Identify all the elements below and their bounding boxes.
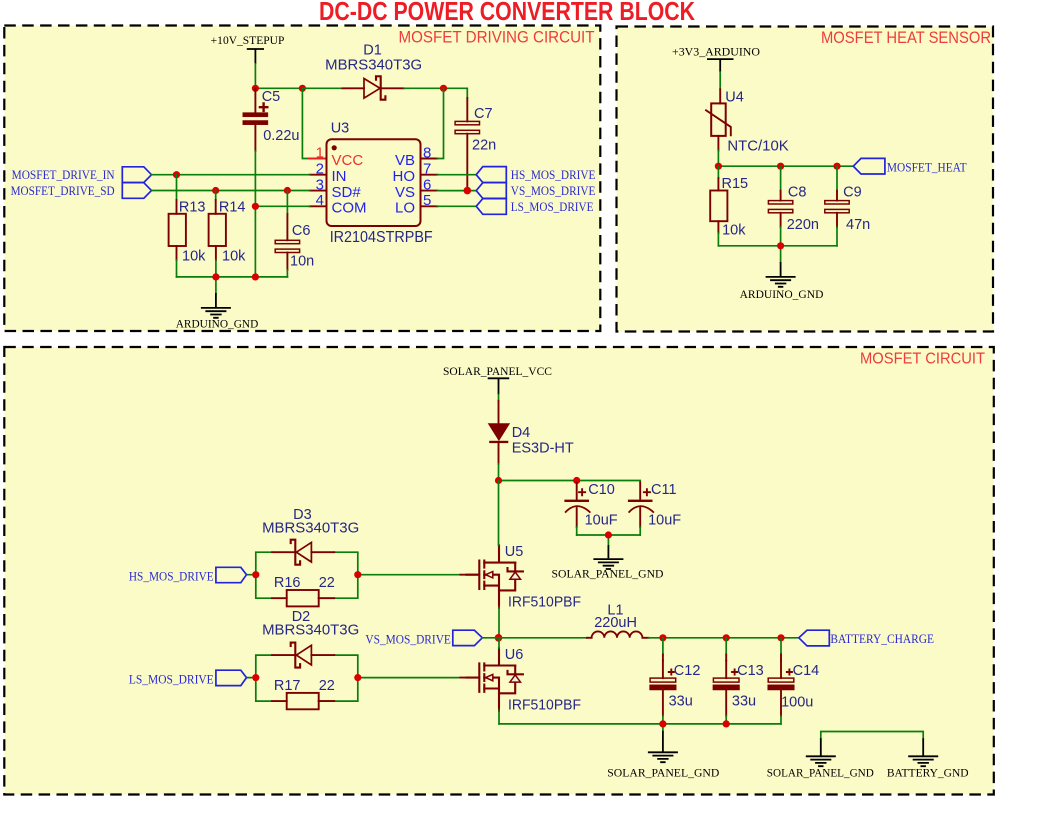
svg-text:R15: R15 [722, 176, 749, 192]
svg-text:MOSFET HEAT SENSOR: MOSFET HEAT SENSOR [821, 28, 991, 47]
svg-text:U4: U4 [725, 89, 744, 105]
svg-text:MOSFET_DRIVE_SD: MOSFET_DRIVE_SD [11, 184, 115, 198]
svg-text:10uF: 10uF [585, 513, 618, 529]
svg-text:BATTERY_CHARGE: BATTERY_CHARGE [830, 632, 934, 646]
svg-text:C12: C12 [674, 663, 701, 679]
svg-text:2: 2 [316, 161, 324, 178]
svg-text:COM: COM [332, 200, 367, 217]
svg-text:33u: 33u [669, 693, 693, 709]
svg-text:NTC/10K: NTC/10K [727, 138, 789, 154]
svg-text:+3V3_ARDUINO: +3V3_ARDUINO [672, 46, 760, 58]
svg-text:10n: 10n [290, 254, 314, 270]
svg-text:LS_MOS_DRIVE: LS_MOS_DRIVE [129, 673, 214, 687]
svg-text:VS_MOS_DRIVE: VS_MOS_DRIVE [365, 632, 451, 646]
svg-text:MOSFET_DRIVE_IN: MOSFET_DRIVE_IN [12, 168, 115, 182]
svg-text:7: 7 [423, 161, 431, 178]
svg-text:R16: R16 [274, 575, 301, 591]
svg-text:5: 5 [423, 192, 431, 209]
svg-text:D1: D1 [363, 43, 382, 59]
svg-text:MBRS340T3G: MBRS340T3G [262, 623, 359, 639]
svg-text:R17: R17 [274, 678, 301, 694]
svg-text:C14: C14 [793, 663, 820, 679]
svg-text:C6: C6 [292, 223, 311, 239]
svg-text:10k: 10k [222, 249, 246, 265]
svg-text:BATTERY_GND: BATTERY_GND [887, 767, 969, 779]
svg-text:3: 3 [316, 176, 324, 193]
svg-text:MOSFET DRIVING CIRCUIT: MOSFET DRIVING CIRCUIT [399, 27, 595, 46]
svg-text:MBRS340T3G: MBRS340T3G [262, 520, 359, 536]
svg-text:HO: HO [393, 168, 416, 185]
svg-text:DC-DC POWER CONVERTER BLOCK: DC-DC POWER CONVERTER BLOCK [319, 0, 695, 26]
svg-text:VCC: VCC [332, 152, 364, 169]
svg-text:SOLAR_PANEL_GND: SOLAR_PANEL_GND [607, 767, 719, 779]
svg-text:LO: LO [395, 200, 415, 217]
svg-text:C13: C13 [737, 663, 764, 679]
svg-text:VS: VS [395, 184, 415, 201]
svg-text:C10: C10 [588, 482, 615, 498]
svg-text:SOLAR_PANEL_VCC: SOLAR_PANEL_VCC [443, 366, 552, 378]
svg-text:8: 8 [423, 144, 431, 161]
svg-text:6: 6 [423, 176, 431, 193]
svg-text:VB: VB [395, 152, 415, 169]
svg-text:22: 22 [319, 575, 335, 591]
svg-text:10k: 10k [182, 249, 206, 265]
svg-text:10k: 10k [722, 223, 746, 239]
svg-text:U3: U3 [331, 121, 350, 137]
svg-text:IR2104STRPBF: IR2104STRPBF [330, 229, 433, 246]
svg-text:C7: C7 [474, 106, 493, 122]
svg-text:C5: C5 [262, 89, 281, 105]
svg-text:VS_MOS_DRIVE: VS_MOS_DRIVE [511, 184, 596, 198]
svg-text:MBRS340T3G: MBRS340T3G [325, 57, 422, 73]
svg-text:LS_MOS_DRIVE: LS_MOS_DRIVE [511, 200, 594, 214]
svg-text:R13: R13 [179, 200, 206, 216]
svg-text:C9: C9 [843, 184, 862, 200]
svg-text:1: 1 [316, 144, 324, 161]
svg-text:R14: R14 [219, 200, 246, 216]
svg-text:U6: U6 [505, 647, 524, 663]
svg-text:4: 4 [316, 192, 324, 209]
svg-text:22: 22 [319, 678, 335, 694]
svg-text:U5: U5 [505, 544, 524, 560]
svg-text:220n: 220n [787, 217, 819, 233]
svg-text:C11: C11 [651, 482, 677, 498]
svg-text:IN: IN [332, 168, 347, 185]
svg-text:SOLAR_PANEL_GND: SOLAR_PANEL_GND [552, 569, 664, 581]
svg-text:10uF: 10uF [648, 513, 681, 529]
svg-text:SD#: SD# [332, 184, 362, 201]
svg-text:220uH: 220uH [594, 615, 637, 631]
svg-text:+10V_STEPUP: +10V_STEPUP [211, 35, 285, 47]
svg-text:HS_MOS_DRIVE: HS_MOS_DRIVE [511, 168, 596, 182]
svg-text:MOSFET_HEAT: MOSFET_HEAT [887, 160, 967, 174]
svg-text:IRF510PBF: IRF510PBF [508, 698, 581, 714]
svg-text:HS_MOS_DRIVE: HS_MOS_DRIVE [129, 570, 214, 584]
svg-text:IRF510PBF: IRF510PBF [508, 595, 581, 611]
svg-text:SOLAR_PANEL_GND: SOLAR_PANEL_GND [767, 767, 874, 779]
svg-text:ES3D-HT: ES3D-HT [512, 440, 574, 456]
svg-text:ARDUINO_GND: ARDUINO_GND [176, 318, 259, 330]
svg-text:100u: 100u [781, 694, 813, 710]
svg-text:ARDUINO_GND: ARDUINO_GND [740, 289, 824, 301]
svg-text:47n: 47n [846, 217, 870, 233]
svg-text:D4: D4 [512, 425, 531, 441]
svg-text:0.22u: 0.22u [263, 128, 299, 144]
svg-text:C8: C8 [788, 184, 807, 200]
svg-text:MOSFET CIRCUIT: MOSFET CIRCUIT [860, 351, 985, 368]
svg-text:22n: 22n [472, 137, 496, 153]
svg-text:33u: 33u [732, 693, 756, 709]
